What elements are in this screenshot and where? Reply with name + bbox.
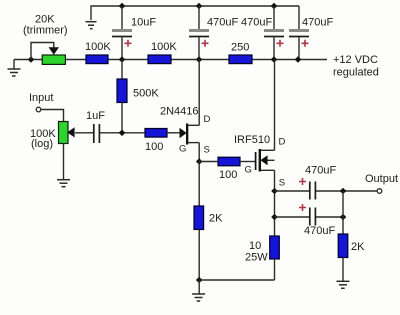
- wire top ground rail: [91, 6, 299, 20]
- node rail at JFET drain: [196, 56, 203, 63]
- wire MOSFET source down: [274, 170, 276, 236]
- node rail at 10uF/500K: [119, 56, 126, 63]
- pot wiper arrow: [67, 127, 74, 137]
- svg-text:25W: 25W: [245, 252, 268, 264]
- node top rail at 470uF #1: [196, 3, 203, 10]
- svg-text:100K: 100K: [85, 41, 111, 53]
- svg-text:(trimmer): (trimmer): [23, 25, 68, 37]
- svg-text:470uF: 470uF: [304, 225, 335, 237]
- resistor 100 (gate): [145, 129, 167, 138]
- potentiometer 100K (log) body: [59, 122, 69, 144]
- svg-text:S: S: [279, 178, 285, 189]
- resistor 100K (left): [86, 55, 108, 64]
- svg-text:250: 250: [231, 42, 249, 54]
- ground far-left on rail: [8, 60, 21, 77]
- svg-text:470uF: 470uF: [305, 165, 336, 177]
- svg-text:470uF: 470uF: [241, 17, 272, 29]
- wire cap A to output node: [316, 190, 378, 192]
- node top rail at 10uF: [119, 3, 126, 10]
- capacitor 470uF (third): [289, 6, 333, 60]
- resistor 2K (output): [338, 234, 348, 258]
- trimmer wiper arrow: [49, 47, 60, 55]
- svg-text:2N4416: 2N4416: [160, 106, 199, 118]
- svg-text:500K: 500K: [133, 87, 159, 99]
- trimmer R 20K body: [42, 55, 65, 64]
- svg-text:regulated: regulated: [333, 67, 379, 79]
- svg-text:D: D: [204, 114, 211, 125]
- ground bottom middle: [192, 280, 205, 301]
- resistor 10 25W: [245, 236, 279, 280]
- svg-text:IRF510: IRF510: [234, 134, 270, 146]
- wire JFET source down: [198, 143, 200, 162]
- svg-text:10uF: 10uF: [131, 17, 156, 29]
- transistor Q2 IRF510: [234, 134, 286, 189]
- wire 100 to MOSFET gate: [240, 161, 255, 163]
- wire trimmer wiper loop: [31, 43, 54, 60]
- node rail at 470uF #2 bottom: [271, 56, 278, 63]
- svg-text:470uF: 470uF: [207, 17, 238, 29]
- wire input to pot: [41, 110, 64, 122]
- capacitor 470uF (first): [189, 6, 238, 60]
- wire JFET drain to rail: [198, 60, 200, 126]
- output terminal: [377, 189, 382, 194]
- node source/output cap 2: [271, 214, 278, 221]
- wire +12V rail: [14, 59, 327, 61]
- node output junction top: [340, 188, 347, 195]
- svg-text:S: S: [204, 144, 210, 155]
- resistor 2K (JFET source): [194, 162, 223, 281]
- wire wiper to 1uF: [75, 132, 93, 134]
- capacitor 470uF output A: [299, 165, 336, 200]
- node top rail at 470uF #2: [271, 3, 278, 10]
- svg-text:100: 100: [145, 141, 163, 153]
- wire 1uF to gate node: [100, 132, 145, 134]
- wire bottom link: [199, 279, 274, 281]
- node output junction bottom: [340, 214, 347, 221]
- svg-text:10: 10: [249, 240, 261, 252]
- node JFET source junction: [196, 158, 203, 165]
- ground under output 2K: [337, 281, 350, 288]
- input terminal: [36, 107, 41, 112]
- capacitor 470uF (second): [241, 6, 284, 60]
- svg-text:+12 VDC: +12 VDC: [333, 54, 378, 66]
- svg-text:D: D: [279, 137, 286, 148]
- svg-text:100K: 100K: [151, 41, 177, 53]
- node gate/500K junction: [119, 130, 126, 137]
- svg-text:Output: Output: [365, 173, 398, 185]
- svg-text:(log): (log): [31, 138, 53, 150]
- capacitor 470uF output B: [299, 204, 335, 237]
- node trimmer junction: [28, 56, 35, 63]
- svg-text:1uF: 1uF: [86, 110, 105, 122]
- resistor 100K (right): [148, 55, 171, 64]
- svg-text:2K: 2K: [209, 213, 223, 225]
- node rail at 470uF #3 bottom: [295, 56, 302, 63]
- ground under pot: [57, 180, 70, 187]
- node source/output cap 1: [271, 188, 278, 195]
- resistor 500K: [117, 60, 159, 134]
- resistor 100 (MOSFET gate): [218, 157, 240, 166]
- wire cap B to output node column: [316, 216, 343, 218]
- wire 100 to JFET gate: [167, 132, 180, 134]
- capacitor 1uF: [86, 110, 105, 143]
- svg-text:470uF: 470uF: [302, 17, 333, 29]
- wire source node to 100: [199, 161, 218, 163]
- wire 2K to ground: [342, 258, 344, 282]
- wire source to cap B: [275, 216, 310, 218]
- svg-text:G: G: [245, 165, 252, 176]
- wire source to cap A: [275, 190, 310, 192]
- resistor 250: [229, 55, 252, 64]
- transistor Q1 2N4416: [160, 106, 211, 156]
- wire MOSFET drain to rail: [274, 60, 276, 151]
- svg-text:G: G: [179, 144, 186, 155]
- wire pot bottom to ground: [63, 144, 65, 180]
- svg-text:2K: 2K: [351, 241, 365, 253]
- ground top-left: [86, 22, 97, 29]
- svg-text:100: 100: [219, 169, 237, 181]
- svg-text:Input: Input: [29, 92, 53, 104]
- wire output column: [342, 191, 344, 234]
- node bottom junction: [196, 277, 203, 284]
- capacitor 10uF: [112, 6, 156, 60]
